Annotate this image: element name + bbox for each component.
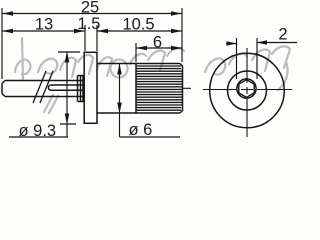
svg-text:ø 9.3: ø 9.3 [19,122,57,140]
svg-text:1.5: 1.5 [78,15,101,33]
svg-text:6: 6 [153,34,162,52]
svg-text:13: 13 [35,15,53,33]
svg-text:10.5: 10.5 [122,15,154,33]
svg-text:2: 2 [278,26,287,44]
svg-text:ø 6: ø 6 [129,121,153,139]
